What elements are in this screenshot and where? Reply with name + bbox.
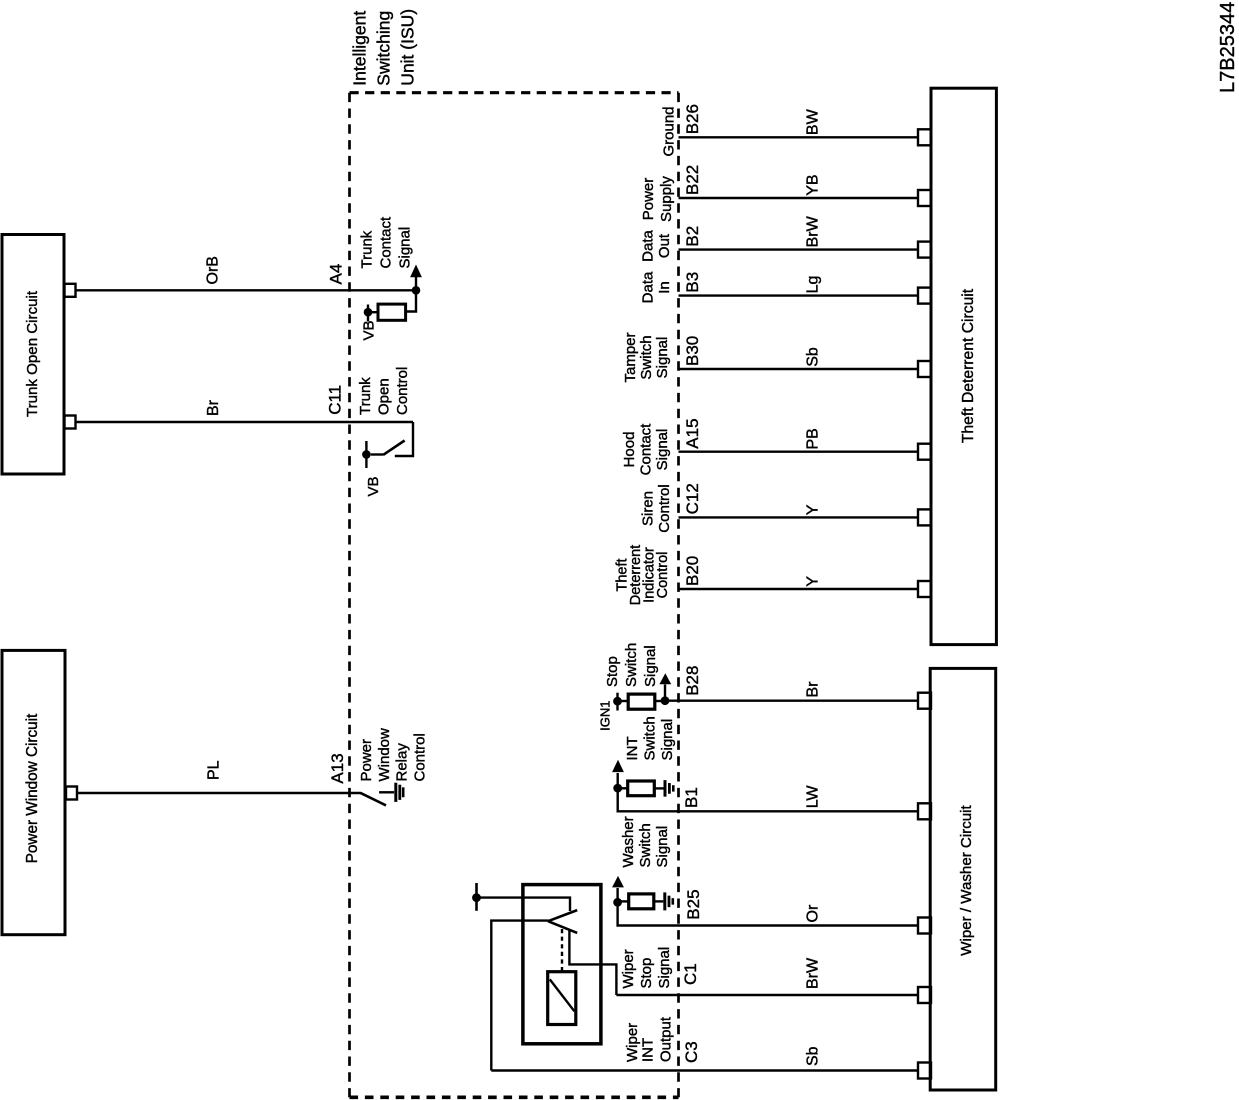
wire OrB (trunk contact) — [76, 289, 417, 291]
relay throw to C1 wire — [569, 930, 616, 996]
svg-text:Signal: Signal — [659, 719, 676, 761]
svg-text:A13: A13 — [328, 753, 347, 783]
node B28 junction — [661, 696, 670, 705]
svg-text:INT: INT — [624, 736, 641, 760]
svg-text:OrB: OrB — [205, 256, 222, 284]
svg-text:Switch: Switch — [637, 823, 654, 867]
pin (trunk open circuit, Br) — [65, 416, 76, 429]
svg-text:Signal: Signal — [654, 429, 671, 471]
INT switch signal arrow — [617, 773, 619, 788]
pin (theft deterrent, B26) — [918, 129, 931, 145]
svg-text:Trunk: Trunk — [357, 377, 374, 415]
resistor (trunk contact pull-up) — [378, 304, 406, 320]
svg-text:C1: C1 — [681, 963, 700, 985]
wire C1 (wiper stop signal) — [616, 994, 918, 996]
svg-text:Lg: Lg — [805, 276, 822, 294]
svg-text:Control: Control — [656, 484, 673, 532]
pin (wiper/washer, C1) — [918, 987, 931, 1003]
pin (trunk open circuit, OrB) — [65, 284, 76, 297]
svg-text:PB: PB — [805, 428, 822, 449]
wire (resistor to VB) — [367, 311, 379, 313]
svg-text:C12: C12 — [683, 483, 702, 514]
svg-text:Switch: Switch — [642, 716, 659, 760]
svg-text:Output: Output — [658, 1016, 675, 1062]
wire Sb (B30) — [679, 368, 919, 370]
svg-text:LW: LW — [805, 785, 822, 809]
svg-text:Control: Control — [394, 367, 411, 415]
svg-text:Data: Data — [640, 271, 657, 303]
svg-text:Tamper: Tamper — [622, 332, 639, 382]
svg-text:Supply: Supply — [658, 176, 675, 222]
block Theft Deterrent Circuit — [931, 88, 996, 644]
stop switch signal arrow — [664, 685, 666, 701]
svg-text:B30: B30 — [683, 336, 702, 366]
svg-text:B3: B3 — [683, 272, 702, 293]
node A4 junction — [412, 286, 421, 295]
ground (washer switch) — [654, 900, 664, 902]
wire BW (B26) — [679, 136, 919, 138]
svg-text:Y: Y — [805, 504, 822, 515]
svg-text:Signal: Signal — [397, 227, 414, 269]
svg-text:Power: Power — [358, 739, 375, 782]
supply stub (relay input) — [475, 883, 478, 911]
switch A13 (power window relay) blade — [360, 793, 386, 806]
svg-text:C3: C3 — [682, 1041, 701, 1063]
svg-text:Intelligent: Intelligent — [350, 11, 370, 86]
wire PB (A15) — [679, 451, 919, 453]
ground (INT switch) — [654, 787, 663, 789]
svg-text:INT: INT — [640, 1038, 657, 1062]
svg-text:B28: B28 — [683, 666, 702, 696]
svg-text:Trunk Open Circuit: Trunk Open Circuit — [24, 290, 41, 417]
svg-text:Stop: Stop — [604, 656, 621, 687]
svg-text:Sb: Sb — [805, 347, 822, 367]
svg-text:B26: B26 — [683, 104, 702, 134]
wire B1 (INT switch signal) — [618, 788, 918, 811]
svg-text:L7B25344: L7B25344 — [1217, 2, 1239, 93]
relay K1 (wiper INT) box — [523, 885, 601, 1044]
trunk contact signal arrow — [415, 277, 417, 291]
relay K1 coil — [548, 972, 576, 1025]
svg-text:Theft Deterrent Circuit: Theft Deterrent Circuit — [960, 288, 977, 443]
washer switch signal arrow — [616, 888, 618, 902]
svg-text:Control: Control — [655, 552, 671, 599]
svg-text:B20: B20 — [683, 556, 702, 586]
wire Lg (B3) — [679, 294, 919, 296]
relay actuator link (dashed) — [561, 929, 563, 972]
pin (wiper/washer, B1) — [918, 803, 931, 819]
svg-text:Open: Open — [376, 378, 393, 415]
resistor (washer switch pull-down) — [618, 900, 629, 902]
svg-text:Washer: Washer — [620, 816, 637, 867]
pin (wiper/washer, B25) — [918, 918, 931, 934]
svg-text:Signal: Signal — [656, 947, 673, 989]
wire BrW (B2) — [679, 248, 919, 250]
svg-text:Wiper: Wiper — [620, 949, 637, 988]
wire Y (B20) — [679, 588, 919, 590]
VB supply stub (trunk open) — [365, 441, 367, 468]
wire (relay common to C3 loop) — [491, 921, 548, 1071]
node B1 junction — [613, 784, 622, 793]
svg-text:Trunk: Trunk — [359, 230, 376, 268]
resistor (INT switch pull-down) — [618, 787, 628, 789]
ground (power window relay control) — [379, 791, 394, 793]
svg-text:Signal: Signal — [654, 826, 671, 868]
switch (trunk open control) blade — [383, 441, 404, 455]
svg-text:Br: Br — [805, 681, 822, 698]
svg-text:Sb: Sb — [805, 1046, 822, 1066]
svg-text:Or: Or — [805, 904, 822, 922]
node VB (trunk contact) — [364, 308, 373, 317]
svg-text:Switching: Switching — [374, 11, 394, 86]
svg-text:BW: BW — [805, 108, 822, 135]
svg-text:Y: Y — [805, 576, 822, 587]
svg-text:A15: A15 — [683, 418, 702, 448]
wire YB (B22) — [679, 197, 919, 199]
svg-text:Contact: Contact — [378, 216, 395, 269]
svg-text:Signal: Signal — [654, 337, 671, 379]
wire Br (trunk open control) — [76, 421, 414, 423]
svg-text:Hood: Hood — [621, 432, 638, 468]
svg-text:PL: PL — [206, 760, 223, 780]
block Wiper / Washer Circuit — [930, 668, 996, 1090]
svg-text:In: In — [656, 281, 673, 294]
wire Y (C12) — [679, 516, 919, 518]
IGN1 supply stub — [616, 693, 618, 711]
svg-text:Br: Br — [205, 399, 222, 416]
svg-text:C11: C11 — [326, 385, 345, 415]
svg-text:VB: VB — [365, 476, 382, 496]
svg-text:Unit (ISU): Unit (ISU) — [398, 9, 418, 86]
svg-text:Power Window Circuit: Power Window Circuit — [24, 713, 41, 863]
wire (C11 to switch fixed contact) — [395, 422, 413, 456]
svg-text:BrW: BrW — [805, 957, 822, 989]
svg-text:Contact: Contact — [638, 423, 655, 476]
node VB (trunk open) — [362, 450, 371, 459]
node (relay input) — [472, 893, 481, 902]
svg-text:B22: B22 — [683, 165, 702, 195]
block Power Window Circuit — [2, 650, 65, 934]
pin (theft deterrent, C12) — [918, 509, 931, 525]
svg-text:YB: YB — [805, 174, 822, 195]
wire C3 (wiper INT output) — [491, 1069, 918, 1071]
pin (theft deterrent, B22) — [918, 190, 931, 206]
svg-text:Data: Data — [640, 230, 657, 262]
svg-text:B25: B25 — [684, 889, 703, 919]
ISU boundary (dashed box, Intelligent Switching Unit) — [350, 91, 679, 94]
svg-text:Power: Power — [640, 178, 657, 221]
svg-text:Ground: Ground — [661, 106, 678, 156]
wire B28 (stop switch signal) — [665, 700, 918, 702]
wire B25 (washer switch signal) — [618, 902, 918, 925]
pin (wiper/washer, B28) — [918, 693, 931, 709]
pin (power window circuit, PL) — [66, 787, 77, 800]
pin (theft deterrent, B2) — [918, 242, 931, 258]
svg-text:Window: Window — [376, 728, 393, 782]
svg-text:Signal: Signal — [642, 645, 659, 687]
node B25 junction — [613, 898, 622, 907]
relay K1 contact blade — [548, 910, 577, 921]
svg-text:Siren: Siren — [640, 491, 657, 526]
wire (stub to relay fixed contact) — [477, 898, 571, 911]
node IGN1 — [613, 697, 622, 706]
svg-text:Stop: Stop — [638, 958, 655, 989]
svg-text:Switch: Switch — [623, 643, 640, 687]
VB supply stub (trunk contact) — [367, 305, 369, 322]
pin (theft deterrent, B20) — [918, 581, 931, 597]
wire (A4 junction to resistor) — [406, 290, 416, 311]
resistor (stop switch, IGN1 pull-up) — [655, 700, 665, 702]
svg-text:Wiper: Wiper — [624, 1023, 641, 1062]
svg-text:BrW: BrW — [805, 215, 822, 247]
svg-text:Wiper / Washer Circuit: Wiper / Washer Circuit — [958, 804, 975, 955]
svg-text:IGN1: IGN1 — [598, 701, 613, 731]
svg-text:Switch: Switch — [638, 335, 655, 379]
svg-text:B2: B2 — [683, 226, 702, 247]
pin (theft deterrent, B30) — [918, 361, 931, 377]
pin (theft deterrent, B3) — [918, 288, 931, 304]
svg-text:Control: Control — [412, 733, 429, 781]
wire PL (power window relay control) — [77, 792, 361, 794]
block Trunk Open Circuit — [2, 235, 64, 475]
svg-text:VB: VB — [361, 320, 378, 340]
pin (wiper/washer, C3) — [918, 1063, 931, 1079]
pin (theft deterrent, A15) — [918, 444, 931, 460]
svg-text:Relay: Relay — [394, 743, 411, 782]
svg-text:B1: B1 — [682, 787, 701, 808]
svg-text:Out: Out — [656, 233, 673, 258]
svg-text:A4: A4 — [327, 264, 346, 285]
